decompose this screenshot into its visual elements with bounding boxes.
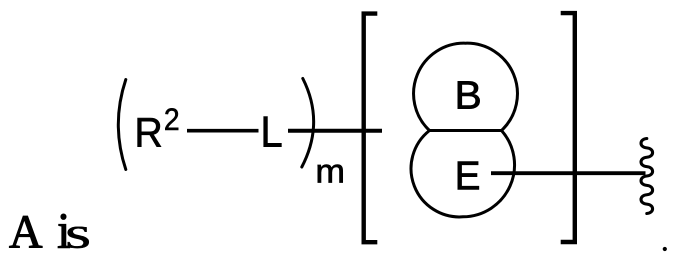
ring B (top circle, flattened bottom) [414, 43, 518, 130]
bond paren to bracket [288, 129, 382, 133]
period [663, 247, 667, 251]
left bracket [364, 14, 378, 243]
wavy attachment bond [641, 139, 653, 214]
label B [458, 81, 480, 108]
substituent R2 [138, 118, 161, 147]
label "A is" [9, 216, 42, 247]
subscript m [318, 165, 343, 183]
bond E to attachment point [491, 171, 646, 175]
label E [458, 162, 479, 190]
close parenthesis [302, 79, 314, 168]
right bracket [561, 13, 575, 242]
bond R2-L [187, 129, 259, 133]
open parenthesis [118, 80, 126, 170]
linker L [264, 117, 282, 147]
ring E (bottom circle, flattened top) [411, 131, 515, 217]
